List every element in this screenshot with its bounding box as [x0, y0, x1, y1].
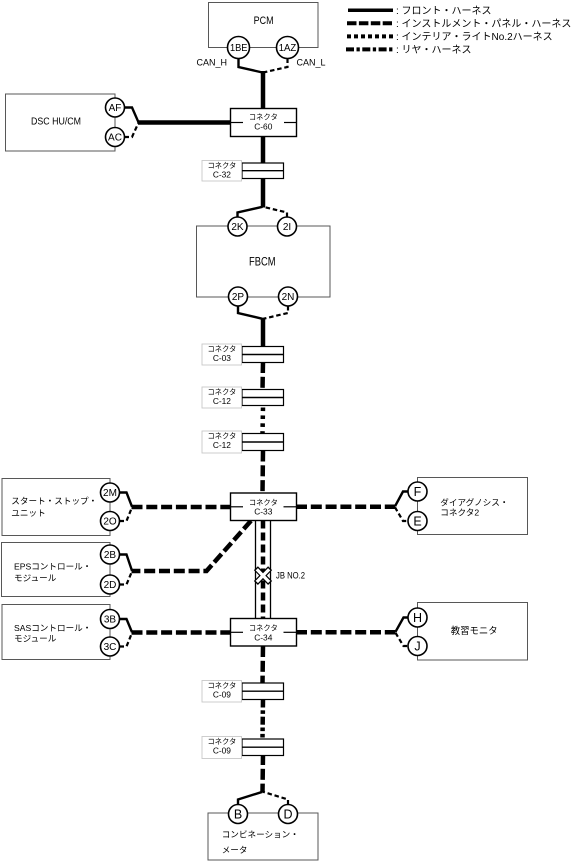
svg-text:C-12: C-12 — [213, 440, 231, 450]
svg-text:C-33: C-33 — [254, 507, 272, 517]
svg-text:: インストルメント・パネル・ハーネス: : インストルメント・パネル・ハーネス — [396, 18, 571, 30]
svg-text:2N: 2N — [282, 292, 295, 303]
svg-text:AF: AF — [109, 103, 122, 114]
svg-text:2D: 2D — [104, 580, 117, 591]
svg-text:3C: 3C — [104, 642, 117, 653]
svg-text:モジュール: モジュール — [14, 573, 57, 583]
svg-text:FBCM: FBCM — [249, 257, 276, 269]
svg-text:2K: 2K — [231, 222, 244, 233]
svg-text:: リヤ・ハーネス: : リヤ・ハーネス — [396, 44, 472, 56]
svg-text:コネクタ: コネクタ — [249, 623, 278, 632]
svg-text:メータ: メータ — [222, 845, 248, 855]
svg-text:C-34: C-34 — [254, 632, 272, 642]
svg-text:コネクタ2: コネクタ2 — [440, 508, 479, 518]
svg-text:2B: 2B — [104, 550, 117, 561]
svg-text:H: H — [413, 611, 422, 625]
svg-text:J: J — [414, 640, 420, 654]
svg-text:: フロント・ハーネス: : フロント・ハーネス — [396, 5, 492, 17]
svg-text:C-09: C-09 — [213, 746, 231, 756]
svg-text:JB NO.2: JB NO.2 — [276, 571, 305, 581]
svg-text:教習モニタ: 教習モニタ — [451, 625, 498, 636]
svg-text:C-32: C-32 — [213, 170, 231, 180]
svg-text:C-60: C-60 — [254, 122, 272, 132]
svg-text:2P: 2P — [232, 292, 245, 303]
svg-text:モジュール: モジュール — [14, 634, 57, 644]
svg-text:E: E — [413, 515, 421, 529]
svg-text:ユニット: ユニット — [11, 508, 45, 518]
svg-text:F: F — [414, 485, 422, 499]
svg-text:AC: AC — [108, 133, 122, 144]
svg-text:ダイアグノシス・: ダイアグノシス・ — [440, 497, 508, 508]
svg-text:PCM: PCM — [254, 15, 274, 27]
svg-text:1BE: 1BE — [230, 42, 248, 54]
svg-text:DSC HU/CM: DSC HU/CM — [31, 116, 81, 127]
svg-text:D: D — [283, 808, 292, 822]
svg-text:2M: 2M — [103, 488, 117, 499]
svg-text:2I: 2I — [283, 222, 291, 233]
svg-text:C-03: C-03 — [213, 353, 231, 363]
svg-text:コネクタ: コネクタ — [249, 113, 278, 122]
svg-text:C-09: C-09 — [213, 690, 231, 700]
svg-text:CAN_H: CAN_H — [196, 58, 227, 68]
svg-text:スタート・ストップ・: スタート・ストップ・ — [11, 496, 97, 506]
svg-text:C-12: C-12 — [213, 396, 231, 406]
svg-text:コンビネーション・: コンビネーション・ — [222, 830, 299, 840]
svg-text:2O: 2O — [103, 517, 117, 528]
svg-text:B: B — [234, 808, 242, 822]
svg-text:EPSコントロール・: EPSコントロール・ — [14, 562, 91, 572]
svg-text:CAN_L: CAN_L — [297, 58, 326, 68]
svg-text:: インテリア・ライトNo.2ハーネス: : インテリア・ライトNo.2ハーネス — [396, 31, 553, 43]
svg-text:1AZ: 1AZ — [279, 42, 297, 54]
svg-text:SASコントロール・: SASコントロール・ — [14, 623, 91, 633]
svg-text:3B: 3B — [104, 615, 117, 626]
